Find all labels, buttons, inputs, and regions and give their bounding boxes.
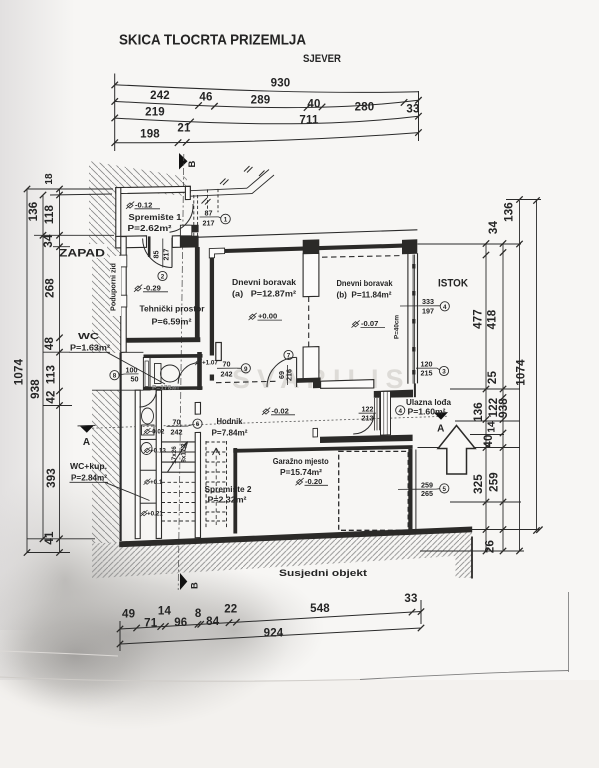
svg-text:P=2.84m²: P=2.84m² (71, 473, 107, 483)
room a west wall lower piece (210, 375, 214, 381)
svg-text:325: 325 (473, 474, 485, 494)
svg-text:46: 46 (199, 92, 212, 104)
svg-text:197: 197 (422, 307, 434, 316)
spremiste1 north wall (116, 186, 191, 193)
svg-text:-0.29: -0.29 (144, 283, 161, 292)
svg-text:B: B (190, 582, 201, 589)
spremiste1 east wall lower (185, 225, 190, 227)
left chain line 1074 (26, 189, 28, 553)
lodja door leaf hatchbar (381, 391, 391, 435)
extension line 34 (53, 246, 70, 248)
svg-text:17x26: 17x26 (171, 446, 178, 464)
svg-text:215: 215 (421, 369, 433, 378)
rooms south wall solid right of door7 (297, 378, 314, 383)
right extension 25 (455, 420, 520, 422)
lodja door arc (353, 413, 374, 434)
wc kup east wall stairs west wall (156, 390, 161, 538)
section line B-B vertical dashed (178, 154, 184, 590)
NE corner block (402, 239, 417, 254)
svg-text:+0.21: +0.21 (147, 511, 163, 518)
svg-text:+0.00: +0.00 (258, 312, 277, 321)
svg-text:Ulazna lođa: Ulazna lođa (406, 397, 451, 407)
door 1 arc spremiste (170, 204, 194, 232)
svg-text:100: 100 (126, 366, 138, 375)
wall between rooms a and b lower (303, 347, 319, 382)
svg-text:216: 216 (285, 369, 294, 381)
section marker A left line (78, 424, 96, 427)
svg-text:ISTOK: ISTOK (438, 278, 468, 290)
elevation -0.29 (134, 283, 168, 292)
entrance arrow big (438, 426, 475, 475)
svg-text:P=7.84m²: P=7.84m² (212, 428, 248, 438)
svg-text:P=1.60m²: P=1.60m² (408, 407, 446, 417)
svg-text:118: 118 (44, 205, 56, 225)
elevation -0.20 (296, 477, 329, 486)
stair treads dashed (162, 482, 196, 521)
wckup leader line (105, 482, 150, 500)
dimension line 930 (115, 85, 419, 93)
section marker A right triangle (434, 412, 448, 420)
svg-text:-0.02: -0.02 (150, 429, 165, 436)
door 7 leaf (296, 357, 298, 387)
svg-text:1074: 1074 (516, 359, 528, 386)
left chain segment line (59, 189, 61, 553)
svg-text:14: 14 (487, 421, 498, 433)
dim 87/217 door1 (200, 209, 231, 228)
dim 89/216 door7 rotated (277, 350, 294, 385)
corner piece upper right (192, 225, 199, 233)
top chain tick marks (112, 82, 422, 146)
svg-text:22: 22 (224, 604, 237, 616)
svg-text:(a) P=12.87m²: (a) P=12.87m² (232, 289, 296, 299)
svg-text:136: 136 (28, 202, 40, 222)
svg-text:Tehnički prostor: Tehnički prostor (140, 304, 206, 314)
svg-text:96: 96 (174, 617, 187, 629)
svg-text:122: 122 (362, 405, 374, 414)
svg-text:P=178an: P=178an (152, 385, 179, 392)
svg-text:-0.20: -0.20 (305, 477, 322, 486)
svg-text:289: 289 (251, 95, 271, 107)
svg-text:A: A (437, 424, 444, 435)
garage east wall (408, 449, 412, 533)
paper bottom edge shadow (0, 677, 360, 681)
extension line bottom938 (27, 538, 95, 540)
right chain segment line (485, 243, 487, 551)
svg-text:SKICA TLOCRTA PRIZEMLJA: SKICA TLOCRTA PRIZEMLJA (119, 33, 306, 49)
right extension bottom (420, 550, 524, 552)
svg-text:938: 938 (498, 398, 510, 418)
svg-text:WC+kup.: WC+kup. (70, 461, 107, 471)
svg-text:4: 4 (398, 408, 402, 415)
dim 122/213 door4 (359, 405, 376, 423)
svg-text:Garažno mjesto: Garažno mjesto (273, 456, 329, 466)
svg-text:P=2.62m²: P=2.62m² (128, 223, 172, 233)
svg-text:7: 7 (287, 353, 291, 360)
svg-text:8x17,2: 8x17,2 (181, 443, 188, 463)
svg-text:268: 268 (45, 278, 57, 298)
section line A-A horizontal dashed (88, 416, 448, 428)
svg-text:3: 3 (442, 369, 446, 376)
tehnicki west wall niche 1 (120, 255, 127, 267)
svg-text:A: A (83, 437, 90, 448)
svg-text:120: 120 (421, 360, 433, 369)
dim 259/265 garage door5 (398, 481, 449, 499)
bottom chain line 924 (120, 628, 421, 644)
svg-text:P=6.59m²: P=6.59m² (152, 317, 192, 327)
top chain right vertical (418, 91, 420, 141)
svg-text:18: 18 (44, 173, 55, 185)
bottom chain line row1 (120, 612, 421, 630)
extension line wc (43, 351, 70, 353)
door landing leaf (216, 343, 222, 361)
dashed beam room b (322, 256, 401, 258)
retaining wall line west (120, 353, 122, 542)
right extension 136 top (506, 199, 541, 201)
svg-text:219: 219 (145, 107, 165, 119)
svg-text:113: 113 (46, 365, 58, 384)
svg-text:8: 8 (195, 608, 202, 620)
garage north wall (233, 445, 412, 453)
right chain ticks (483, 196, 543, 554)
svg-text:B: B (187, 161, 198, 168)
section marker B bottom triangle (180, 573, 187, 590)
east window mullions (412, 264, 415, 375)
svg-text:1074: 1074 (14, 358, 26, 385)
bottom chain ticks (117, 608, 424, 647)
wc east wall (197, 352, 202, 390)
photo shadow bottom-left (0, 540, 290, 730)
svg-text:P=1.63m²: P=1.63m² (70, 343, 110, 353)
svg-text:265: 265 (421, 489, 433, 498)
spremiste1 south wall right (172, 236, 180, 248)
svg-text:5: 5 (443, 486, 447, 493)
svg-text:Dnevni boravak: Dnevni boravak (337, 278, 393, 288)
svg-text:930: 930 (271, 78, 291, 90)
extension line bottom (27, 552, 70, 554)
extension line 18 (50, 194, 112, 195)
right extension top (418, 243, 522, 245)
hatch terrain left block (92, 258, 121, 353)
spremiste1 west wall (116, 188, 121, 237)
background below paper edge (0, 680, 599, 768)
room a west wall (210, 258, 214, 356)
svg-text:217: 217 (162, 249, 171, 261)
svg-text:8: 8 (113, 373, 117, 380)
right chain line 938r (502, 243, 504, 551)
svg-text:SJEVER: SJEVER (303, 53, 341, 65)
svg-text:Spremište 1: Spremište 1 (129, 212, 182, 222)
svg-text:85: 85 (152, 251, 161, 259)
svg-text:50: 50 (131, 375, 139, 384)
left chain line 938 (42, 195, 44, 539)
dim 100/50 window8 (110, 366, 139, 384)
svg-text:217: 217 (203, 219, 215, 228)
tehnicki west wall (121, 237, 126, 353)
spremiste1 south wall left (116, 236, 147, 248)
dim 120/215 window3 (416, 360, 449, 378)
wc north wall (144, 354, 203, 358)
wckup sink (141, 443, 152, 455)
extension line 136 (34, 234, 114, 236)
svg-text:9: 9 (244, 366, 248, 373)
exterior stair rails (190, 188, 252, 196)
right extension lodja (450, 388, 520, 390)
frame bottom line (360, 671, 569, 680)
top chain left vertical (114, 74, 116, 152)
tehnicki south wall (126, 337, 200, 342)
svg-text:48: 48 (44, 337, 56, 351)
tehnicki west wall niche 2 (120, 295, 127, 307)
rooms south wall dashed opening (216, 381, 279, 383)
svg-text:40: 40 (483, 434, 495, 447)
svg-text:33: 33 (404, 593, 417, 605)
spremiste2 dashed treads (206, 442, 227, 521)
wc recess outline (92, 352, 143, 390)
door 1 dashed treads outside (194, 189, 218, 236)
right extension 40 (418, 447, 521, 449)
svg-text:333: 333 (422, 297, 434, 306)
extension line top (27, 188, 113, 190)
section marker A left triangle (80, 426, 94, 433)
building south wall (119, 527, 472, 548)
svg-text:14: 14 (158, 606, 172, 618)
hatch terrain top-left wedge (89, 161, 187, 244)
corner block SE of annex (180, 236, 198, 248)
svg-text:+0.1: +0.1 (150, 479, 163, 486)
svg-text:34: 34 (488, 221, 500, 235)
elevation -0.02 hodnik (262, 406, 295, 415)
band right edge line (471, 537, 473, 579)
svg-text:SVARILIS: SVARILIS (232, 364, 411, 394)
garage parking dashed rect (339, 451, 409, 530)
door 2 arc (143, 239, 172, 268)
hatch band susjedni objekt (92, 527, 472, 579)
stairs east wall (195, 432, 200, 537)
hatch terrain left column (107, 244, 121, 258)
svg-text:1: 1 (224, 217, 228, 224)
svg-text:6: 6 (196, 421, 200, 428)
svg-text:34: 34 (43, 234, 55, 248)
svg-text:477: 477 (473, 309, 485, 329)
svg-text:87: 87 (205, 209, 213, 218)
dimension line row4 (115, 133, 419, 143)
dimension line row3 (115, 116, 419, 124)
label Poduporni zid backing (110, 256, 121, 316)
frame right vertical (568, 592, 570, 672)
svg-text:242: 242 (221, 370, 233, 379)
elevation +0.00 (249, 312, 283, 321)
east wall at lodja (414, 383, 416, 397)
right extension garage (450, 501, 521, 503)
dim 85/217 door2 rotated (152, 239, 171, 281)
garage west wall (233, 448, 237, 534)
svg-text:P=15.74m²: P=15.74m² (280, 467, 322, 477)
svg-text:924: 924 (264, 628, 284, 640)
svg-text:213: 213 (362, 414, 374, 423)
svg-text:-0.02: -0.02 (272, 406, 289, 415)
hatch terrain left lower block (92, 390, 120, 543)
north facade outer line (195, 230, 418, 238)
right extension bottom wall (413, 529, 540, 531)
svg-text:548: 548 (310, 603, 330, 615)
svg-text:280: 280 (355, 102, 375, 114)
wc toilet (155, 364, 162, 384)
stair arrowhead (181, 442, 188, 451)
wc kup west wall (135, 390, 140, 539)
svg-text:42: 42 (46, 390, 58, 403)
svg-text:Spremište 2: Spremište 2 (205, 484, 252, 494)
svg-text:Susjedni objekt: Susjedni objekt (279, 568, 367, 578)
left chain ticks (24, 186, 63, 556)
svg-text:136: 136 (473, 402, 485, 422)
north facade jog at room a (209, 248, 224, 258)
door 2 jamb stub (148, 236, 151, 257)
svg-text:+1.07: +1.07 (202, 360, 218, 367)
svg-text:70: 70 (223, 360, 231, 369)
elevation -0.12 (126, 200, 160, 209)
dimension line row2 (115, 100, 419, 107)
door wc inner arc (178, 363, 199, 384)
spremiste1 east wall upper (185, 186, 190, 199)
svg-text:198: 198 (140, 129, 160, 141)
svg-text:Dnevni boravak: Dnevni boravak (232, 277, 296, 287)
wckup dividers (140, 438, 156, 440)
svg-text:71: 71 (144, 617, 158, 629)
svg-text:40: 40 (307, 99, 320, 111)
svg-text:2: 2 (161, 274, 165, 281)
svg-text:418: 418 (487, 309, 499, 329)
wckup toilet (142, 408, 154, 424)
spremiste2 center dashline with arrow (215, 449, 217, 525)
hodnik south wall notch (313, 428, 318, 437)
svg-text:711: 711 (299, 115, 319, 127)
elevation -0.07 (352, 319, 386, 328)
wc leader line (107, 352, 165, 384)
right chain line 1074r (519, 201, 521, 552)
svg-text:84: 84 (206, 616, 220, 628)
extension line 42 (43, 405, 72, 407)
corner notch white (180, 225, 191, 236)
east window glazing double line (413, 255, 415, 384)
svg-text:70: 70 (173, 418, 181, 427)
svg-text:41: 41 (44, 531, 56, 545)
lodja north wall (374, 390, 413, 398)
svg-text:393: 393 (46, 468, 58, 488)
dim 70/242 hodnik (167, 418, 203, 437)
exterior stair diagonals (247, 170, 274, 194)
east wall window band (408, 253, 418, 383)
svg-text:136: 136 (504, 202, 516, 222)
stairs east wall upper piece (195, 402, 200, 414)
north inner wall rooms a b (225, 246, 404, 251)
spremiste2 dashed outline right (226, 441, 228, 529)
stair direction line (167, 442, 187, 473)
svg-text:ZAPAD: ZAPAD (59, 248, 105, 260)
door 2 leaf (171, 238, 173, 268)
svg-text:(b) P=11.84m²: (b) P=11.84m² (337, 290, 392, 300)
garage east outer line (415, 450, 417, 530)
wc south wall (144, 386, 203, 390)
room b south wall (321, 380, 374, 389)
spremiste2 dashed outline left (205, 441, 207, 529)
dim 70/242 room a (217, 360, 250, 379)
bottom chain right vertical (420, 600, 422, 624)
hodnik lodja south wall (320, 435, 413, 443)
svg-text:-0.07: -0.07 (361, 319, 378, 328)
svg-text:Poduporni zid: Poduporni zid (109, 263, 118, 311)
svg-text:938: 938 (30, 379, 42, 399)
svg-text:WC: WC (78, 331, 99, 341)
section marker B top triangle (179, 153, 188, 170)
stair treads solid (162, 442, 196, 472)
svg-text:21: 21 (177, 123, 191, 135)
wc window west (143, 358, 150, 391)
door 6 arc wc (139, 390, 156, 407)
svg-text:+0.13: +0.13 (150, 448, 166, 455)
svg-text:242: 242 (150, 90, 170, 102)
break marks (202, 166, 265, 205)
right extension 14 (470, 434, 504, 436)
wall between rooms a and b dashed middle (308, 297, 310, 348)
svg-text:25: 25 (487, 371, 499, 385)
wall a b junction block (303, 239, 320, 254)
tehnicki east wall (195, 247, 200, 341)
svg-text:49: 49 (122, 609, 135, 621)
svg-text:4: 4 (443, 304, 447, 311)
svg-text:242: 242 (171, 428, 183, 437)
svg-text:259: 259 (489, 472, 501, 492)
right chain outer line (536, 201, 538, 531)
elevation +1.07 (195, 359, 218, 367)
room b south wall step (313, 378, 321, 389)
wall between rooms a and b upper (303, 253, 319, 296)
svg-text:P=40cm: P=40cm (394, 315, 401, 339)
svg-text:26: 26 (485, 540, 497, 553)
svg-text:Hodnik: Hodnik (217, 416, 243, 426)
svg-text:-0.12: -0.12 (135, 200, 152, 209)
lodja door sidelight (375, 398, 380, 431)
svg-text:33: 33 (406, 104, 419, 116)
bottom chain left vertical (119, 621, 121, 651)
door 7 arc (267, 357, 297, 387)
svg-text:P=2.32m²: P=2.32m² (208, 495, 247, 505)
dim 333/197 window4 (400, 297, 449, 316)
